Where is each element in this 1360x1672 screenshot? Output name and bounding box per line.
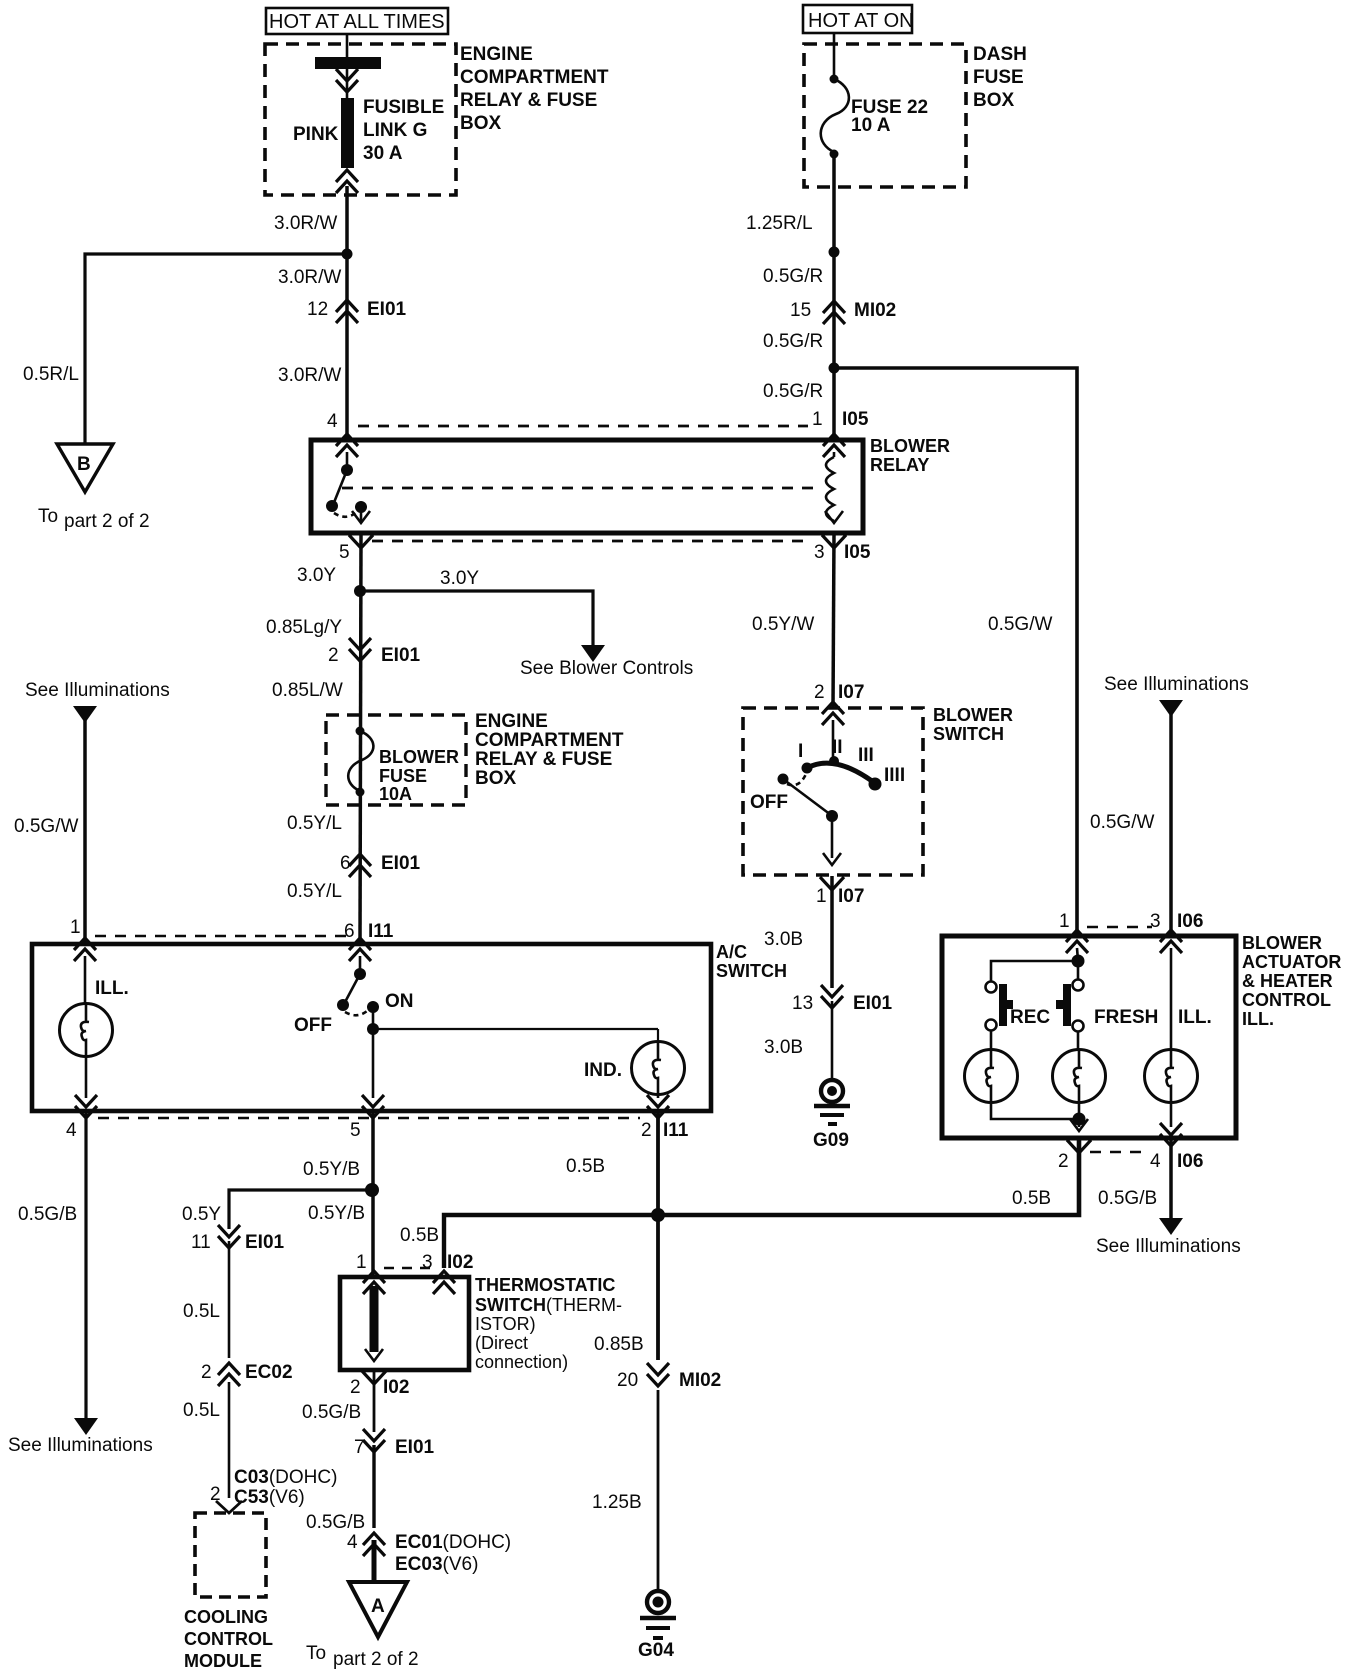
wire 0.5B thermostatic pin 3 to junction bbox=[444, 1215, 658, 1268]
A/C switch pin 2 bbox=[647, 1095, 669, 1118]
svg-text:1: 1 bbox=[816, 886, 827, 907]
node HOT AT ON bbox=[803, 5, 914, 33]
svg-text:FUSIBLE: FUSIBLE bbox=[363, 97, 444, 118]
svg-text:BLOWER: BLOWER bbox=[379, 747, 459, 767]
connector B to part 2 of 2 bbox=[38, 444, 150, 532]
svg-text:3: 3 bbox=[422, 1252, 433, 1273]
engine compartment relay &amp; fuse box 2 (dashed enclosure) bbox=[326, 711, 624, 805]
svg-text:A: A bbox=[371, 1596, 385, 1617]
svg-text:0.85Lg/Y: 0.85Lg/Y bbox=[266, 617, 342, 638]
wire 0.5G/W illumination to A/C switch pin 1 bbox=[83, 708, 87, 944]
actuator pin 2 bbox=[1067, 1140, 1091, 1153]
connector EI01 pin 13 bbox=[792, 985, 893, 1014]
svg-text:10A: 10A bbox=[379, 784, 412, 804]
svg-text:0.5L: 0.5L bbox=[183, 1400, 220, 1421]
FRESH lamp bbox=[1053, 1031, 1106, 1119]
node: junction inside actuator bbox=[1072, 955, 1085, 968]
svg-text:SWITCH(THERM-: SWITCH(THERM- bbox=[475, 1295, 622, 1315]
wire 0.5B A/C pin 2 down to ground bbox=[656, 1111, 660, 1360]
svg-text:EI01: EI01 bbox=[853, 993, 893, 1014]
svg-text:0.5G/R: 0.5G/R bbox=[763, 331, 823, 352]
svg-text:MODULE: MODULE bbox=[184, 1651, 262, 1671]
svg-text:2: 2 bbox=[1058, 1151, 1069, 1172]
svg-text:& HEATER: & HEATER bbox=[1242, 971, 1333, 991]
svg-text:0.5G/W: 0.5G/W bbox=[14, 816, 78, 837]
relay internal dashed link bbox=[342, 487, 820, 490]
wire to REC branch bbox=[991, 961, 1078, 981]
svg-text:3.0R/W: 3.0R/W bbox=[278, 365, 341, 386]
node: junction to blower actuator feed bbox=[829, 363, 840, 374]
svg-text:ISTOR): ISTOR) bbox=[475, 1314, 536, 1334]
svg-text:1: 1 bbox=[812, 409, 823, 430]
FRESH actuator contacts bbox=[1056, 961, 1158, 1032]
svg-text:FUSE: FUSE bbox=[973, 67, 1024, 88]
svg-text:FRESH: FRESH bbox=[1094, 1007, 1158, 1028]
svg-text:REC: REC bbox=[1010, 1007, 1050, 1028]
node: junction 0.5B bbox=[651, 1208, 665, 1222]
svg-text:PINK: PINK bbox=[293, 124, 339, 145]
blower switch rotary contact bbox=[750, 720, 905, 865]
svg-text:0.5L: 0.5L bbox=[183, 1301, 220, 1322]
svg-text:G04: G04 bbox=[638, 1640, 674, 1661]
A/C switch pin 4 bbox=[75, 1095, 97, 1118]
thermostatic pin 3 bbox=[433, 1271, 455, 1294]
svg-text:BLOWER: BLOWER bbox=[933, 705, 1013, 725]
svg-text:I07: I07 bbox=[838, 682, 864, 703]
svg-text:part 2 of 2: part 2 of 2 bbox=[333, 1649, 419, 1670]
wire 0.5B actuator pin 2 return bbox=[658, 1139, 1079, 1215]
svg-text:0.5B: 0.5B bbox=[1012, 1188, 1051, 1209]
wire hot at on into fuse 22 bbox=[833, 33, 836, 79]
svg-text:0.5Y/L: 0.5Y/L bbox=[287, 813, 342, 834]
svg-text:To: To bbox=[38, 506, 58, 527]
node: junction to B branch bbox=[342, 249, 353, 260]
svg-text:ENGINE: ENGINE bbox=[460, 44, 533, 65]
node see illuminations feed (right) bbox=[1104, 674, 1249, 717]
svg-text:EI01: EI01 bbox=[245, 1232, 285, 1253]
svg-text:THERMOSTATIC: THERMOSTATIC bbox=[475, 1275, 615, 1295]
svg-text:4: 4 bbox=[66, 1120, 77, 1141]
blower relay box bbox=[311, 436, 950, 533]
svg-text:3.0B: 3.0B bbox=[764, 929, 803, 950]
wire 0.5G/W illumination to actuator pin 3 bbox=[1169, 702, 1173, 936]
connector EI01 pin 11 bbox=[191, 1225, 285, 1253]
svg-text:EC03(V6): EC03(V6) bbox=[395, 1554, 478, 1575]
svg-text:CONTROL: CONTROL bbox=[1242, 990, 1331, 1010]
svg-text:I11: I11 bbox=[368, 921, 394, 942]
wire from hot feed into fusible link bbox=[346, 33, 349, 98]
svg-text:See Illuminations: See Illuminations bbox=[1096, 1236, 1241, 1257]
svg-text:SWITCH: SWITCH bbox=[933, 724, 1004, 744]
svg-text:13: 13 bbox=[792, 993, 813, 1014]
svg-text:EI01: EI01 bbox=[381, 853, 421, 874]
node see illuminations feed (left) bbox=[25, 680, 170, 723]
ground G04 bbox=[638, 1591, 676, 1661]
A/C switch pin 5 bbox=[362, 1095, 384, 1118]
svg-text:EI01: EI01 bbox=[381, 645, 421, 666]
svg-text:ACTUATOR: ACTUATOR bbox=[1242, 952, 1341, 972]
svg-text:0.5G/R: 0.5G/R bbox=[763, 266, 823, 287]
svg-text:5: 5 bbox=[350, 1120, 361, 1141]
connector C03/C53 pin 2 bbox=[210, 1467, 337, 1513]
svg-text:EC02: EC02 bbox=[245, 1362, 293, 1383]
wire 0.5G/B to EC01 bbox=[372, 1445, 375, 1528]
wire 3.0B to EI01 bbox=[830, 876, 834, 988]
actuator pin 3 bbox=[1160, 930, 1182, 953]
svg-text:(Direct: (Direct bbox=[475, 1333, 528, 1353]
svg-text:3.0R/W: 3.0R/W bbox=[278, 267, 341, 288]
svg-text:MI02: MI02 bbox=[679, 1370, 721, 1391]
ground G09 bbox=[813, 1080, 850, 1151]
blower switch pin 2 bbox=[822, 702, 844, 725]
connector EI01 pin 2 bbox=[328, 638, 421, 666]
connector EC01/EC03 pin 4 bbox=[347, 1532, 511, 1575]
svg-text:15: 15 bbox=[790, 300, 811, 321]
wire: dashed connector line below actuator bbox=[1090, 1151, 1150, 1154]
svg-text:EI01: EI01 bbox=[367, 299, 407, 320]
REC actuator contacts bbox=[986, 982, 1051, 1031]
thermostatic switch box bbox=[340, 1275, 622, 1372]
svg-text:ILL.: ILL. bbox=[1242, 1009, 1274, 1029]
wire: dashed connector line below A/C switch bbox=[98, 1117, 640, 1120]
svg-text:12: 12 bbox=[307, 299, 328, 320]
svg-text:2: 2 bbox=[350, 1377, 361, 1398]
svg-text:IND.: IND. bbox=[584, 1060, 622, 1081]
engine compartment relay &amp; fuse box (dashed enclosure) bbox=[265, 44, 609, 195]
wire: dashed connector line below relay bbox=[372, 540, 806, 543]
wire: dashed connector line above relay bbox=[358, 425, 808, 428]
svg-text:C03(DOHC): C03(DOHC) bbox=[234, 1467, 337, 1488]
svg-text:A/C: A/C bbox=[716, 942, 747, 962]
wire to IND lamp bbox=[373, 1028, 658, 1030]
fuse 22 10A bbox=[821, 75, 928, 159]
svg-text:I02: I02 bbox=[383, 1377, 409, 1398]
svg-text:0.5R/L: 0.5R/L bbox=[23, 364, 79, 385]
blower switch box (dashed enclosure) bbox=[743, 705, 1013, 875]
svg-text:0.5B: 0.5B bbox=[566, 1156, 605, 1177]
svg-text:RELAY: RELAY bbox=[870, 455, 929, 475]
relay coil bbox=[823, 434, 845, 523]
wire branch to connector B bbox=[85, 254, 347, 444]
connector EI01 pin 6 bbox=[340, 853, 421, 877]
svg-text:LINK G: LINK G bbox=[363, 120, 427, 141]
wire to connector A bbox=[372, 1540, 377, 1582]
svg-text:7: 7 bbox=[354, 1437, 365, 1458]
svg-text:See Illuminations: See Illuminations bbox=[8, 1435, 153, 1456]
cooling control module (dashed enclosure) bbox=[184, 1513, 273, 1671]
svg-text:3.0B: 3.0B bbox=[764, 1037, 803, 1058]
svg-text:2: 2 bbox=[641, 1120, 652, 1141]
svg-text:EI01: EI01 bbox=[395, 1437, 435, 1458]
svg-text:0.85L/W: 0.85L/W bbox=[272, 680, 343, 701]
A/C switch box bbox=[32, 942, 787, 1111]
svg-text:BLOWER: BLOWER bbox=[1242, 933, 1322, 953]
connector EC02 pin 2 bbox=[201, 1362, 293, 1386]
wire: dashed connector line above A/C switch bbox=[95, 935, 352, 938]
svg-text:EC01(DOHC): EC01(DOHC) bbox=[395, 1532, 511, 1553]
svg-text:0.5G/W: 0.5G/W bbox=[988, 614, 1052, 635]
svg-text:COMPARTMENT: COMPARTMENT bbox=[460, 67, 609, 88]
svg-text:2: 2 bbox=[201, 1362, 212, 1383]
fusible link G 30A bbox=[293, 57, 444, 193]
svg-text:SWITCH: SWITCH bbox=[716, 961, 787, 981]
svg-text:FUSE: FUSE bbox=[379, 766, 427, 786]
svg-text:I06: I06 bbox=[1177, 1151, 1203, 1172]
ILL lamp (actuator) bbox=[1145, 948, 1198, 1127]
svg-text:4: 4 bbox=[1150, 1151, 1161, 1172]
svg-text:0.5G/B: 0.5G/B bbox=[306, 1512, 365, 1533]
connector A to part 2 of 2 bbox=[306, 1582, 419, 1670]
svg-text:1.25R/L: 1.25R/L bbox=[746, 213, 813, 234]
svg-text:BOX: BOX bbox=[475, 768, 517, 789]
connector MI02 pin 15 bbox=[790, 300, 896, 324]
A/C switch contact OFF/ON bbox=[294, 956, 414, 1036]
svg-text:I05: I05 bbox=[844, 542, 871, 563]
relay contact arm bbox=[326, 452, 370, 523]
wire 0.5L to module bbox=[228, 1382, 231, 1498]
relay pin 4 bbox=[336, 434, 358, 457]
svg-text:See Blower Controls: See Blower Controls bbox=[520, 658, 693, 679]
wire 1.25B to ground G04 bbox=[657, 1390, 660, 1590]
wire 0.5L bbox=[228, 1241, 231, 1358]
svg-text:0.5G/R: 0.5G/R bbox=[763, 381, 823, 402]
wire: dashed connector line above thermostatic switch bbox=[384, 1267, 432, 1270]
svg-text:1: 1 bbox=[70, 917, 81, 938]
svg-text:MI02: MI02 bbox=[854, 300, 896, 321]
svg-text:G09: G09 bbox=[813, 1130, 849, 1151]
svg-text:2: 2 bbox=[814, 682, 825, 703]
wire ON pole down to pin 5 bbox=[372, 1029, 375, 1098]
svg-text:OFF: OFF bbox=[750, 792, 788, 813]
wire 1.25R/L fuse to MI02 bbox=[832, 154, 836, 440]
svg-text:11: 11 bbox=[191, 1232, 211, 1253]
svg-text:1.25B: 1.25B bbox=[592, 1492, 642, 1513]
wire 3.0B to ground bbox=[831, 1001, 834, 1079]
svg-text:ILL.: ILL. bbox=[95, 978, 129, 999]
svg-text:See Illuminations: See Illuminations bbox=[25, 680, 170, 701]
wire 0.5Y/B A/C pin 5 down bbox=[371, 1111, 375, 1277]
node: junction to blower controls bbox=[354, 585, 366, 597]
actuator pin 1 bbox=[1066, 930, 1088, 953]
connector EI01 pin 7 bbox=[354, 1429, 435, 1458]
svg-text:5: 5 bbox=[339, 542, 350, 563]
svg-text:0.5Y/L: 0.5Y/L bbox=[287, 881, 342, 902]
svg-text:0.5G/W: 0.5G/W bbox=[1090, 812, 1154, 833]
svg-text:4: 4 bbox=[347, 1532, 358, 1553]
svg-text:See Illuminations: See Illuminations bbox=[1104, 674, 1249, 695]
wire 0.5Y/W relay pin 3 to blower switch bbox=[833, 534, 834, 708]
svg-text:I: I bbox=[798, 741, 803, 762]
svg-text:ON: ON bbox=[385, 991, 414, 1012]
wire 0.5G/B actuator pin 4 to illuminations bbox=[1096, 1139, 1241, 1257]
svg-text:0.5G/B: 0.5G/B bbox=[1098, 1188, 1157, 1209]
svg-text:1: 1 bbox=[356, 1252, 367, 1273]
svg-text:I02: I02 bbox=[447, 1252, 473, 1273]
wire 3.0Y to see blower controls bbox=[360, 568, 693, 679]
wire: dashed connector line above actuator bbox=[1087, 926, 1152, 929]
svg-text:1: 1 bbox=[1059, 911, 1070, 932]
A/C switch pin 1 bbox=[74, 938, 96, 961]
svg-text:C53(V6): C53(V6) bbox=[234, 1487, 305, 1508]
svg-text:RELAY & FUSE: RELAY & FUSE bbox=[475, 749, 612, 770]
svg-text:BOX: BOX bbox=[460, 113, 502, 134]
svg-text:COMPARTMENT: COMPARTMENT bbox=[475, 730, 624, 751]
wire 3.0R/W fusible link to relay pin 4 bbox=[345, 186, 349, 440]
svg-text:6: 6 bbox=[344, 921, 355, 942]
blower switch pin 1 bbox=[820, 877, 844, 890]
svg-text:0.5B: 0.5B bbox=[400, 1225, 439, 1246]
wire 0.5G/W to blower actuator pin 1 bbox=[834, 368, 1077, 936]
svg-text:I11: I11 bbox=[663, 1120, 689, 1141]
svg-text:RELAY & FUSE: RELAY & FUSE bbox=[460, 90, 597, 111]
svg-text:part 2 of 2: part 2 of 2 bbox=[64, 511, 150, 532]
svg-text:6: 6 bbox=[340, 853, 351, 874]
node: lamp return junction bbox=[1073, 1113, 1086, 1126]
indicator lamp IND bbox=[584, 1029, 685, 1098]
wire 3.0Y relay pin 5 down bbox=[360, 534, 361, 944]
actuator pin 4 bbox=[1160, 1123, 1182, 1146]
wire 0.5G/B thermostatic pin 2 down bbox=[373, 1370, 376, 1432]
svg-text:HOT AT ALL TIMES: HOT AT ALL TIMES bbox=[269, 11, 445, 33]
dash fuse box (dashed enclosure) bbox=[804, 44, 1027, 187]
svg-text:DASH: DASH bbox=[973, 44, 1027, 65]
svg-text:0.5G/B: 0.5G/B bbox=[302, 1402, 361, 1423]
svg-text:CONTROL: CONTROL bbox=[184, 1629, 273, 1649]
wire 0.5G/B A/C pin 4 to illuminations bbox=[8, 1111, 153, 1456]
svg-text:ENGINE: ENGINE bbox=[475, 711, 548, 732]
svg-text:10 A: 10 A bbox=[851, 115, 891, 136]
svg-text:0.5G/B: 0.5G/B bbox=[18, 1204, 77, 1225]
relay pin 3 bbox=[822, 535, 846, 548]
thermostatic pin 2 bbox=[362, 1371, 386, 1384]
svg-text:OFF: OFF bbox=[294, 1015, 332, 1036]
thermostatic pin 1 bbox=[363, 1271, 385, 1294]
A/C switch pin 6 bbox=[349, 938, 371, 961]
blower fuse 10A bbox=[348, 727, 459, 805]
svg-text:III: III bbox=[858, 745, 874, 766]
svg-text:0.85B: 0.85B bbox=[594, 1334, 644, 1355]
svg-text:I06: I06 bbox=[1177, 911, 1203, 932]
svg-text:ILL.: ILL. bbox=[1178, 1007, 1212, 1028]
svg-text:30 A: 30 A bbox=[363, 143, 403, 164]
svg-text:COOLING: COOLING bbox=[184, 1607, 268, 1627]
node: ON pole junction bbox=[367, 1023, 379, 1035]
blower actuator &amp; heater control box bbox=[942, 933, 1341, 1138]
svg-text:B: B bbox=[77, 454, 91, 475]
REC lamp bbox=[965, 1030, 1080, 1119]
connector MI02 pin 20 bbox=[617, 1363, 721, 1391]
svg-text:HOT AT ON: HOT AT ON bbox=[808, 10, 914, 32]
connector EI01 pin 12 bbox=[307, 299, 407, 323]
svg-text:BOX: BOX bbox=[973, 90, 1015, 111]
svg-text:BLOWER: BLOWER bbox=[870, 436, 950, 456]
illumination lamp ILL bbox=[60, 956, 129, 1098]
node: junction 0.5Y branch bbox=[365, 1183, 379, 1197]
svg-text:II: II bbox=[832, 737, 843, 758]
wire 0.5Y to cooling control module bbox=[229, 1190, 372, 1229]
relay pin 5 bbox=[349, 535, 373, 548]
svg-text:3: 3 bbox=[1150, 911, 1161, 932]
svg-text:3.0Y: 3.0Y bbox=[297, 565, 336, 586]
svg-text:To: To bbox=[306, 1643, 326, 1664]
svg-text:0.5Y: 0.5Y bbox=[182, 1204, 221, 1225]
svg-text:I05: I05 bbox=[842, 409, 869, 430]
svg-text:3.0Y: 3.0Y bbox=[440, 568, 479, 589]
node on wire bbox=[829, 247, 840, 258]
svg-text:3: 3 bbox=[814, 542, 825, 563]
svg-text:0.5Y/B: 0.5Y/B bbox=[303, 1159, 360, 1180]
svg-text:2: 2 bbox=[328, 645, 339, 666]
thermistor element bbox=[365, 1286, 383, 1361]
svg-text:IIII: IIII bbox=[884, 765, 905, 786]
svg-text:0.5Y/W: 0.5Y/W bbox=[752, 614, 814, 635]
svg-text:I07: I07 bbox=[838, 886, 864, 907]
svg-text:connection): connection) bbox=[475, 1352, 568, 1372]
svg-text:0.5Y/B: 0.5Y/B bbox=[308, 1203, 365, 1224]
svg-text:3.0R/W: 3.0R/W bbox=[274, 213, 337, 234]
node HOT AT ALL TIMES bbox=[266, 8, 448, 34]
svg-text:4: 4 bbox=[327, 411, 338, 432]
svg-text:20: 20 bbox=[617, 1370, 638, 1391]
